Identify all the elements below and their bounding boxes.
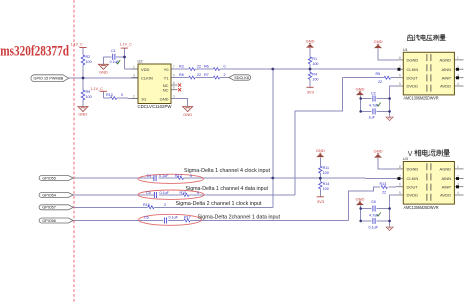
- svg-text:DOUT: DOUT: [407, 75, 419, 80]
- svg-text:C8: C8: [371, 200, 376, 204]
- svg-text:C4: C4: [147, 174, 152, 178]
- svg-text:AGND: AGND: [439, 58, 451, 63]
- svg-text:AMC1306M25DWVR: AMC1306M25DWVR: [404, 96, 439, 101]
- svg-text:GPIO55: GPIO55: [42, 176, 56, 180]
- svg-text:AINN: AINN: [441, 176, 451, 181]
- svg-text:3: 3: [457, 183, 459, 187]
- svg-text:7: 7: [173, 65, 175, 69]
- svg-text:CLKIN: CLKIN: [407, 67, 419, 72]
- svg-text:DOUT: DOUT: [407, 184, 419, 189]
- svg-text:R1: R1: [312, 57, 317, 61]
- svg-text:AINP: AINP: [442, 75, 452, 80]
- svg-text:5: 5: [399, 191, 401, 195]
- svg-text:R12: R12: [175, 174, 182, 178]
- svg-text:DVDD: DVDD: [407, 193, 418, 198]
- svg-text:100: 100: [323, 187, 329, 191]
- svg-text:Y1: Y1: [164, 76, 170, 81]
- svg-text:GND: GND: [356, 87, 365, 92]
- svg-text:GPIO54: GPIO54: [42, 193, 56, 197]
- svg-text:2: 2: [133, 95, 135, 99]
- svg-text:R11: R11: [323, 166, 330, 170]
- svg-text:3: 3: [173, 95, 175, 99]
- svg-text:DVDD: DVDD: [407, 84, 418, 89]
- svg-text:GPIO 15 PWM8B: GPIO 15 PWM8B: [34, 77, 64, 81]
- svg-text:4: 4: [133, 74, 135, 78]
- svg-text:0: 0: [224, 64, 226, 68]
- svg-text:1uF: 1uF: [369, 115, 376, 119]
- svg-text:GND: GND: [99, 70, 108, 75]
- svg-text:R5: R5: [376, 72, 381, 76]
- svg-text:4: 4: [457, 191, 459, 195]
- svg-text:3: 3: [457, 74, 459, 78]
- svg-text:3V3: 3V3: [317, 199, 325, 204]
- svg-text:R14: R14: [323, 182, 330, 186]
- svg-text:GND: GND: [183, 112, 192, 117]
- svg-text:R16: R16: [143, 203, 150, 207]
- svg-text:R17: R17: [184, 215, 191, 219]
- svg-text:1: 1: [133, 65, 135, 69]
- svg-text:GPIO56: GPIO56: [42, 219, 56, 223]
- svg-text:5: 5: [173, 74, 175, 78]
- svg-text:7: 7: [399, 174, 401, 178]
- svg-text:Sigma-Delta 2 channel 1 clock: Sigma-Delta 2 channel 1 clock input: [176, 201, 262, 207]
- svg-text:100: 100: [86, 60, 92, 64]
- svg-text:8: 8: [173, 81, 175, 85]
- svg-text:3V3: 3V3: [307, 89, 315, 94]
- svg-text:6: 6: [399, 74, 401, 78]
- svg-text:C2: C2: [371, 91, 376, 95]
- svg-text:1.1V_C: 1.1V_C: [71, 43, 84, 47]
- svg-text:0.1uF: 0.1uF: [159, 174, 169, 178]
- svg-text:R13: R13: [380, 182, 387, 186]
- svg-text:5: 5: [399, 82, 401, 86]
- svg-text:100: 100: [312, 78, 318, 82]
- svg-text:GND: GND: [374, 39, 383, 44]
- svg-text:6: 6: [173, 86, 175, 90]
- svg-text:R3: R3: [179, 64, 184, 68]
- svg-text:AINN: AINN: [441, 67, 451, 72]
- svg-text:Sigma-Delta 1 channel 4 data i: Sigma-Delta 1 channel 4 data input: [186, 186, 269, 192]
- svg-text:GPIO57: GPIO57: [42, 206, 56, 210]
- svg-text:R7: R7: [204, 73, 209, 77]
- svg-text:R4: R4: [312, 73, 317, 77]
- svg-text:1G: 1G: [141, 97, 146, 102]
- svg-text:AMC1306M25DWVR: AMC1306M25DWVR: [404, 205, 439, 210]
- svg-text:AVDD: AVDD: [440, 193, 451, 198]
- svg-text:0.1uF: 0.1uF: [369, 226, 379, 230]
- svg-text:GND: GND: [306, 39, 315, 44]
- svg-text:7: 7: [399, 65, 401, 69]
- svg-text:GND: GND: [78, 112, 87, 117]
- svg-text:AINP: AINP: [442, 184, 452, 189]
- svg-text:4: 4: [457, 82, 459, 86]
- svg-text:Y0: Y0: [164, 67, 170, 72]
- svg-text:0.1uF: 0.1uF: [160, 191, 170, 195]
- svg-text:1.1V_C: 1.1V_C: [91, 87, 104, 91]
- svg-text:V: V: [408, 151, 413, 158]
- svg-text:U2: U2: [138, 59, 144, 64]
- svg-text:100: 100: [323, 171, 329, 175]
- svg-text:R2: R2: [86, 55, 91, 59]
- svg-text:8: 8: [399, 56, 401, 60]
- svg-text:100: 100: [86, 95, 92, 99]
- svg-text:U1: U1: [403, 47, 409, 52]
- svg-text:0: 0: [190, 174, 192, 178]
- svg-text:0: 0: [121, 93, 123, 97]
- svg-text:1: 1: [457, 165, 459, 169]
- svg-text:AGND: AGND: [439, 167, 451, 172]
- svg-text:CLKIN: CLKIN: [407, 176, 419, 181]
- svg-text:R6: R6: [204, 64, 209, 68]
- svg-text:R8: R8: [179, 73, 184, 77]
- svg-text:2: 2: [224, 73, 226, 77]
- svg-text:DGND: DGND: [407, 58, 419, 63]
- svg-text:C5: C5: [146, 191, 151, 195]
- svg-text:GND: GND: [374, 149, 383, 154]
- svg-text:6: 6: [399, 183, 401, 187]
- svg-text:4.7uF: 4.7uF: [369, 103, 379, 107]
- svg-text:22: 22: [197, 73, 201, 77]
- svg-text:Sigma-Delta 2channel 1 data in: Sigma-Delta 2channel 1 data input: [198, 214, 281, 220]
- svg-text:R10: R10: [106, 93, 113, 97]
- svg-text:C1: C1: [111, 49, 116, 53]
- svg-text:CLKIN: CLKIN: [141, 76, 153, 81]
- svg-text:R9: R9: [86, 90, 91, 94]
- svg-text:22: 22: [381, 191, 386, 195]
- svg-text:2: 2: [457, 174, 459, 178]
- svg-text:2: 2: [457, 65, 459, 69]
- svg-text:1: 1: [457, 56, 459, 60]
- svg-text:0.1uF: 0.1uF: [169, 215, 179, 219]
- svg-text:C6: C6: [144, 215, 149, 219]
- svg-text:tms320f28377d: tms320f28377d: [0, 43, 69, 59]
- svg-text:GND: GND: [356, 197, 365, 202]
- svg-text:CDCLVC1102PW: CDCLVC1102PW: [138, 104, 173, 109]
- svg-text:0.1uF: 0.1uF: [110, 60, 120, 64]
- svg-text:Sigma-Delta 1 channel 4 clock: Sigma-Delta 1 channel 4 clock input: [184, 168, 270, 174]
- svg-text:8: 8: [399, 165, 401, 169]
- svg-text:100: 100: [312, 62, 318, 66]
- svg-text:22: 22: [197, 64, 201, 68]
- svg-text:SDCLK8: SDCLK8: [234, 76, 249, 80]
- svg-text:GND: GND: [160, 97, 169, 102]
- svg-text:2: 2: [164, 203, 166, 207]
- svg-text:NC: NC: [163, 88, 169, 93]
- svg-text:DGND: DGND: [407, 167, 419, 172]
- svg-text:1.1V_C: 1.1V_C: [120, 43, 133, 47]
- svg-text:AVDD: AVDD: [440, 84, 451, 89]
- svg-text:4.7uF: 4.7uF: [369, 214, 379, 218]
- svg-text:22: 22: [377, 80, 382, 84]
- svg-text:GND: GND: [316, 148, 325, 153]
- svg-text:VDD: VDD: [141, 67, 150, 72]
